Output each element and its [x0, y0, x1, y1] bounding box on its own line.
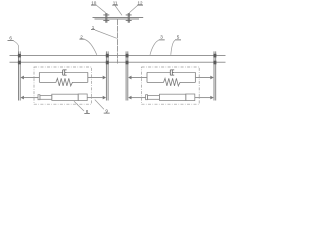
left suspension insulator: [103, 13, 109, 23]
right damper unit: [126, 51, 217, 104]
svg-text:9: 9: [105, 108, 108, 113]
yoke plate line B: [95, 18, 140, 20]
conductor line 1: [10, 55, 226, 57]
yoke plate line A: [93, 17, 144, 19]
svg-text:6: 6: [9, 36, 12, 41]
left damper unit: [18, 51, 109, 104]
hanger rod: [117, 19, 119, 64]
svg-text:3: 3: [160, 35, 163, 40]
right suspension insulator: [126, 13, 132, 23]
conductor line 2: [10, 61, 226, 63]
svg-text:5: 5: [177, 35, 180, 40]
